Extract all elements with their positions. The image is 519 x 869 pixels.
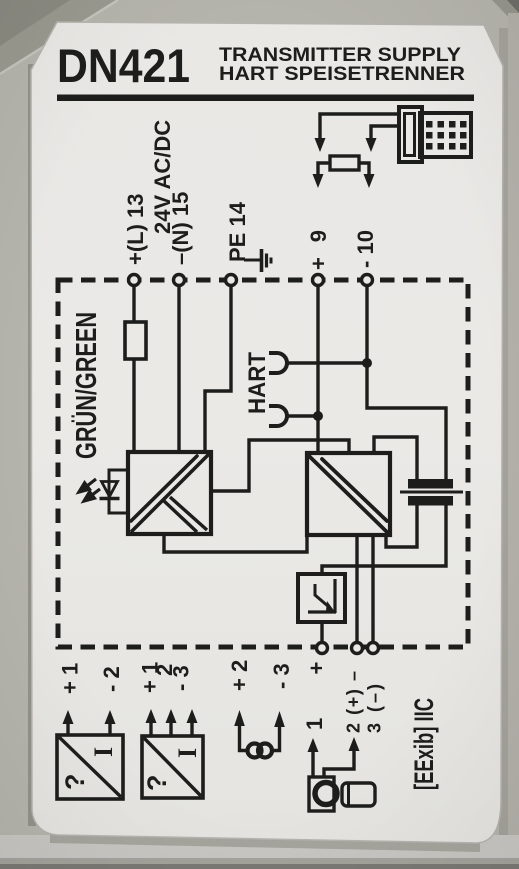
LED light arrows — [79, 479, 100, 501]
power block U1 — [128, 452, 211, 534]
top-right housing corner — [492, 0, 519, 28]
terminal 9 — [313, 275, 324, 286]
wire capacitor bottom-left to block2 — [386, 505, 417, 547]
wire block1 bottom to block2 bottom — [164, 534, 307, 552]
photo vignette — [0, 0, 1, 1]
terminal 13 — [129, 275, 140, 286]
limiter symbol — [308, 579, 336, 613]
resistor right lead — [359, 163, 369, 174]
wire limiter to terminal 1 — [320, 622, 323, 647]
wire N15 down — [177, 285, 180, 452]
wire communicator to loop — [320, 114, 400, 138]
arrow up sensor b — [349, 737, 360, 751]
transmitter box X2 — [142, 736, 203, 798]
earth symbol — [244, 249, 271, 272]
wire block2 top step to capacitor — [374, 437, 417, 479]
resistor left lead — [318, 163, 330, 174]
wire fuse to block1 — [132, 359, 135, 452]
wire PE14 down — [205, 285, 231, 452]
communicator keypad — [426, 121, 467, 150]
terminal 2 bottom — [352, 643, 363, 654]
wire hook upper to -10 — [287, 361, 367, 364]
HART hook lower — [269, 406, 287, 426]
arrow down left upper — [315, 138, 326, 152]
terminal 14 — [226, 275, 237, 286]
transmitter box X1 — [57, 735, 123, 799]
junction -10 hook — [362, 358, 372, 368]
terminal 3 bottom — [368, 643, 379, 654]
capacitor C1 mid plate — [400, 491, 463, 494]
arrow up box1 b — [108, 722, 111, 735]
fuse F1 — [125, 322, 146, 359]
capacitor C1 bottom plate — [408, 496, 453, 506]
sensor icon — [309, 777, 375, 811]
box X2 diagonal — [144, 738, 201, 796]
arrow up box2 b — [169, 721, 172, 736]
box X1 diagonal — [59, 737, 121, 797]
arrow up sensor a — [311, 751, 314, 777]
arrow up transformer a — [234, 710, 245, 726]
arrow up box1 a — [66, 722, 69, 735]
wire capacitor bottom-right to limiter — [322, 505, 446, 574]
label bottom shadow — [50, 834, 480, 852]
HART communicator icon body — [399, 107, 471, 162]
right housing seam — [499, 28, 508, 838]
arrow up box2 a — [149, 721, 152, 736]
bottom housing strip — [0, 835, 519, 869]
wire L13 down — [132, 285, 135, 322]
wire block2 to terminal 3 — [371, 535, 374, 647]
isolation dashed box — [58, 280, 468, 647]
capacitor C1 top plate — [408, 479, 453, 489]
wire -10 down to capacitor — [367, 285, 446, 479]
arrow up transformer b — [274, 711, 285, 727]
wire block1 right to block2 top — [211, 440, 349, 491]
top-left housing corner — [0, 0, 118, 74]
load resistor icon — [330, 156, 359, 170]
arrow down left lower — [313, 174, 324, 188]
isolating converter block U2 — [307, 453, 390, 535]
wire hook lower to +9 — [287, 414, 318, 417]
terminal 10 — [362, 275, 373, 286]
wire block2 to terminal 2 — [355, 535, 358, 647]
wire +9 down — [316, 285, 319, 453]
LED D1 green — [100, 470, 129, 513]
junction +9 hook — [313, 411, 323, 421]
wire sensor b — [324, 750, 354, 777]
transformer T1 — [248, 744, 273, 758]
terminal 1 bottom — [317, 643, 328, 654]
HART hook upper — [269, 353, 287, 373]
arrow up box2 c — [190, 721, 193, 736]
arrow down right lower — [364, 174, 375, 188]
terminal 15 — [174, 275, 185, 286]
arrow down right upper — [366, 138, 377, 152]
left housing seam — [28, 64, 36, 826]
limiter block U3 — [298, 574, 345, 622]
title rule — [57, 95, 474, 102]
